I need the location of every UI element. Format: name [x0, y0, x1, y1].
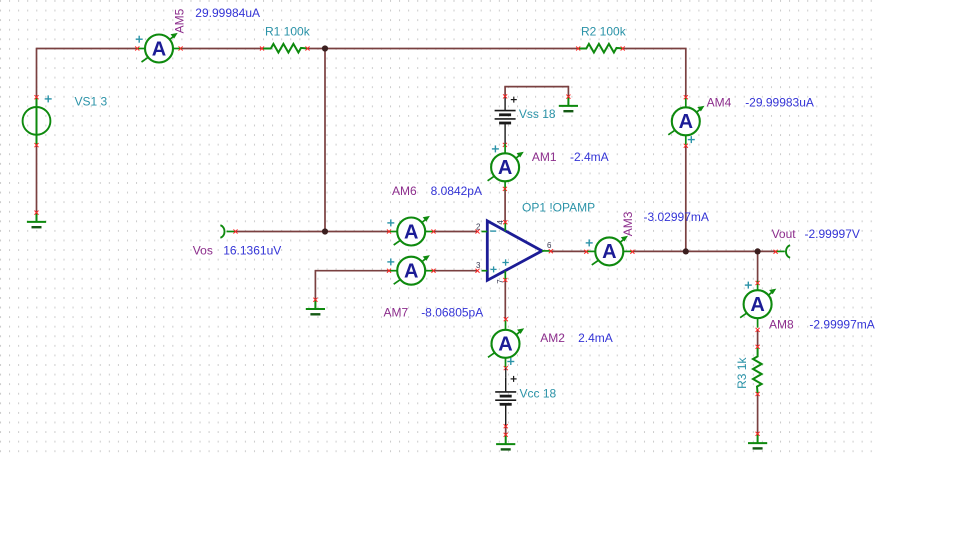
pin marker x op-amp pin 3: [475, 269, 479, 273]
polarity + Vss +: [511, 97, 517, 103]
wire Vss top loop horizontal: [504, 86, 568, 88]
wire AM7 to op-amp pin 3: [434, 270, 478, 272]
pin marker x AM4 bottom pin: [684, 144, 688, 148]
svg-text:AM7: AM7: [384, 306, 409, 320]
polarity + op-amp non-inverting input: [491, 266, 497, 272]
svg-text:3: 3: [476, 261, 481, 270]
polarity + AM5 +: [136, 36, 143, 43]
svg-text:OP1 !OPAMP: OP1 !OPAMP: [522, 201, 595, 215]
svg-text:A: A: [404, 261, 418, 283]
ground GND at R3: [748, 434, 767, 449]
polarity + AM6 +: [387, 219, 394, 226]
ground GND at VS1: [27, 213, 46, 228]
pin marker x AM3 right pin: [630, 250, 634, 254]
ammeter AM7: [388, 255, 434, 285]
svg-text:-2.99997mA: -2.99997mA: [809, 318, 874, 332]
ammeter AM5: [136, 33, 182, 63]
wire AM8 to R3: [757, 330, 759, 347]
battery Vss: [495, 96, 516, 144]
svg-text:6: 6: [547, 241, 552, 250]
svg-text:AM5: AM5: [173, 8, 187, 33]
terminal Vos (input): [220, 225, 235, 238]
pin marker x R2 left pin: [576, 46, 580, 50]
svg-text:-3.02997mA: -3.02997mA: [644, 210, 709, 224]
svg-text:8.0842pA: 8.0842pA: [431, 184, 482, 198]
polarity + AM4 +: [688, 136, 695, 143]
wire left vertical down to VS1 +: [36, 48, 38, 97]
pin marker x AM4 top pin: [684, 95, 688, 99]
pin marker x AM6 left pin: [387, 229, 391, 233]
svg-text:AM2: AM2: [540, 331, 565, 345]
svg-text:R1 100k: R1 100k: [265, 25, 311, 39]
pin marker x VS1 pin -: [34, 143, 38, 147]
wire AM6 to op-amp pin 2: [434, 231, 478, 233]
pin marker x AM5 left pin: [135, 46, 139, 50]
pin marker x op-amp pin 4: [503, 220, 507, 224]
wire Vss loop down to ground: [567, 86, 569, 97]
polarity + AM7 +: [387, 258, 394, 265]
wire AM2 to Vcc link: [505, 368, 507, 378]
pin marker x Vcc ground pin: [504, 433, 508, 437]
wire op-amp output to AM3: [551, 250, 587, 252]
svg-text:A: A: [404, 221, 418, 243]
pin marker x AM2 bottom pin: [504, 366, 508, 370]
pin marker x AM1 bottom pin: [503, 187, 507, 191]
svg-text:Vos: Vos: [193, 243, 213, 257]
ground GND at Vcc: [496, 435, 515, 450]
ground GND at Vss: [559, 97, 578, 112]
polarity + AM1 +: [492, 145, 499, 152]
junction node D (output/load): [755, 248, 761, 254]
ammeter AM1: [488, 144, 524, 191]
pin marker x op-amp pin 2: [475, 229, 479, 233]
wire AM7 branch vertical to ground: [314, 270, 316, 300]
svg-text:-2.4mA: -2.4mA: [570, 150, 609, 164]
wire AM4 down to output node: [685, 146, 687, 252]
wire Vcc - to ground stub: [505, 426, 507, 435]
pin marker x VS1 pin +: [34, 95, 38, 99]
junction node A (R1/R2/feedback): [322, 45, 328, 51]
pin marker x R3 top pin: [756, 345, 760, 349]
wire VS1 - down to ground: [36, 145, 38, 213]
ammeter AM8: [740, 281, 776, 328]
pin marker x Vcc bottom pin: [504, 424, 508, 428]
op-amp U1 OP1: [482, 221, 551, 280]
svg-text:A: A: [498, 157, 512, 179]
pin marker x AM3 left pin: [584, 250, 588, 254]
pin marker x AM5 right pin: [179, 46, 183, 50]
svg-text:-8.06805pA: -8.06805pA: [421, 306, 483, 320]
ammeter AM6: [388, 216, 434, 246]
terminal Vout (output): [776, 245, 791, 258]
polarity + AM8 +: [745, 282, 752, 289]
svg-text:AM4: AM4: [707, 96, 732, 110]
polarity + op-amp supply mark: [502, 259, 508, 265]
svg-text:Vout: Vout: [772, 227, 797, 241]
pin marker x VS1 ground pin: [34, 211, 38, 215]
pin marker x R1 right pin: [305, 46, 309, 50]
svg-text:A: A: [152, 38, 166, 60]
svg-text:A: A: [679, 111, 693, 133]
junction node B (inverting input net): [322, 228, 328, 234]
pin marker x AM7 branch ground pin: [313, 298, 317, 302]
svg-text:Vcc 18: Vcc 18: [520, 387, 557, 401]
wire Vss + up to top loop: [504, 87, 506, 97]
pin marker x Vss ground pin: [566, 95, 570, 99]
resistor R2: [578, 44, 624, 53]
wire feedback node vertical: [324, 49, 326, 232]
wire AM3 to Vout terminal: [632, 250, 775, 252]
wire R2 to top-right corner: [623, 48, 687, 50]
pin marker x Vos pin: [233, 229, 237, 233]
pin marker x Vss bottom pin: [503, 143, 507, 147]
svg-text:A: A: [602, 241, 616, 263]
svg-text:AM1: AM1: [532, 150, 557, 164]
pin marker x R3 ground pin: [756, 432, 760, 436]
svg-text:R3 1k: R3 1k: [735, 357, 749, 389]
pin marker x Vss top pin: [503, 94, 507, 98]
pin marker x AM8 top pin: [756, 281, 760, 285]
pin marker x R3 bottom pin: [756, 392, 760, 396]
junction node C (output/feedback): [683, 248, 689, 254]
svg-text:VS1 3: VS1 3: [75, 94, 108, 108]
voltage source VS1: [23, 97, 51, 145]
polarity + AM2 +: [507, 358, 514, 365]
ammeter AM4: [668, 98, 704, 145]
wire op-amp pin 7 down to AM2: [504, 280, 506, 319]
wire top-left horizontal VS1 to AM5: [37, 48, 138, 50]
pin marker x R2 right pin: [621, 46, 625, 50]
wire top-right vertical down to AM4: [685, 49, 687, 98]
svg-text:AM8: AM8: [769, 318, 794, 332]
wire AM5 to R1: [181, 48, 262, 50]
ammeter AM3: [586, 236, 632, 266]
svg-text:AM6: AM6: [392, 184, 417, 198]
pin marker x AM6 right pin: [431, 229, 435, 233]
svg-text:AM3: AM3: [621, 211, 635, 236]
svg-text:2.4mA: 2.4mA: [578, 331, 613, 345]
svg-text:-29.99983uA: -29.99983uA: [745, 96, 814, 110]
svg-text:-2.99997V: -2.99997V: [805, 227, 860, 241]
battery Vcc: [495, 378, 516, 427]
wire ground branch to AM7: [315, 270, 389, 272]
wire R1 to R2 through node A: [308, 48, 579, 50]
wire AM1 to op-amp pin 4: [504, 189, 506, 222]
pin marker x R1 left pin: [260, 46, 264, 50]
pin marker x op-amp pin 7: [503, 278, 507, 282]
pin marker x AM2 top pin: [504, 317, 508, 321]
pin marker x op-amp pin 6: [549, 249, 553, 253]
resistor R1: [262, 44, 308, 53]
polarity + VS1 positive terminal: [45, 95, 52, 102]
pin marker x AM8 bottom pin: [756, 328, 760, 332]
svg-text:29.99984uA: 29.99984uA: [195, 6, 260, 20]
pin marker x AM7 left pin: [387, 269, 391, 273]
svg-text:16.1361uV: 16.1361uV: [223, 243, 281, 257]
svg-text:A: A: [498, 334, 512, 356]
polarity + AM3 +: [586, 239, 593, 246]
svg-text:A: A: [750, 294, 764, 316]
op-amp inverting input mark: [490, 230, 496, 232]
wire output node down to AM8: [757, 251, 759, 283]
ground GND at AM7 branch: [306, 300, 325, 315]
wire Vos terminal to AM6: [236, 231, 390, 233]
svg-text:Vss 18: Vss 18: [519, 107, 556, 121]
ammeter AM2: [488, 320, 524, 367]
pin marker x AM7 right pin: [431, 269, 435, 273]
resistor R3: [753, 348, 762, 394]
svg-text:R2 100k: R2 100k: [581, 25, 627, 39]
pin marker x Vout pin: [774, 250, 778, 254]
wire R3 to ground: [757, 394, 759, 434]
polarity + Vcc +: [511, 376, 517, 382]
